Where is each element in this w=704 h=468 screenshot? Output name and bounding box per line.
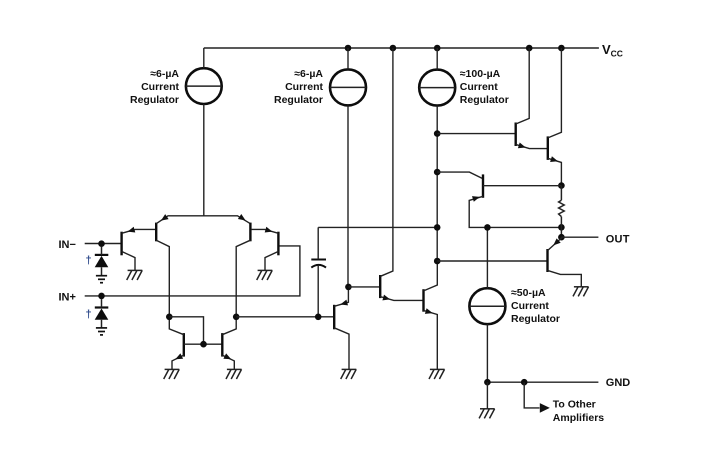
wire C1 top node to common column <box>318 226 437 228</box>
ground G3 (Q5 emitter) <box>164 369 180 379</box>
node C1 bottom junction <box>315 314 322 321</box>
ground G5 (Q7 collector) <box>341 369 357 379</box>
node Q6 collector junction <box>233 314 240 321</box>
diode D1 input clamp <box>95 247 109 276</box>
node I3 column junction to Q12 collector <box>434 169 441 176</box>
node IN+ diode junction <box>98 293 105 300</box>
wire Q10 collector to VCC <box>516 48 530 124</box>
svg-text:Regulator: Regulator <box>460 94 509 106</box>
svg-text:≈50-µA: ≈50-µA <box>511 287 546 299</box>
wire I4 bottom lead to GND rail <box>486 324 488 382</box>
transistor Q5 mirror NPN left <box>183 333 185 357</box>
wire mirror output to Q7 base <box>236 316 334 318</box>
svg-text:Amplifiers: Amplifiers <box>553 412 605 424</box>
svg-text:Current: Current <box>460 81 498 93</box>
svg-text:GND: GND <box>606 377 631 389</box>
node I3 column junction to Q10 base <box>434 130 441 137</box>
node OUT junction <box>558 234 565 241</box>
diode D2 input clamp <box>95 299 109 328</box>
node IN- diode junction <box>98 240 105 247</box>
wire I3 top lead <box>436 48 438 70</box>
wire Q2 collector down to mirror <box>156 240 169 317</box>
transistor Q4 outer right PNP <box>277 232 279 256</box>
wire Q11 emitter to resistor node <box>548 158 562 185</box>
resistor R1 <box>559 186 565 238</box>
wire VCC rail <box>204 47 599 49</box>
node Q5 collector junction <box>166 314 173 321</box>
wire Q13 base connection <box>437 260 547 262</box>
node mirror base junction <box>200 341 207 348</box>
node GND junction to other amplifiers <box>521 379 528 386</box>
node VCC junction at Q10 collector <box>526 45 533 52</box>
wire Q5 collector riser <box>169 317 184 335</box>
wire to other amplifiers <box>524 382 539 408</box>
wire I3 bottom lead down common node column <box>436 106 438 261</box>
ground E1 <box>96 276 107 283</box>
wire I4 ground stub <box>486 382 488 409</box>
arrow to other amplifiers <box>540 403 550 413</box>
node GND junction at I4 <box>484 379 491 386</box>
transistor Q9 NPN <box>422 289 424 312</box>
node resistor top junction <box>558 182 565 189</box>
transistor Q11 NPN output driver <box>547 136 549 160</box>
wire Q4 emitter to Q3 base <box>251 229 279 233</box>
svg-text:Current: Current <box>511 300 549 312</box>
wire Q11 collector to VCC <box>548 48 562 138</box>
wire Q1 collector to ground <box>122 251 135 270</box>
wire Q2 emitter to tail apex <box>156 216 250 224</box>
wire Q8 emitter to Q9 base <box>380 297 423 301</box>
wire Q5 emitter to ground <box>172 355 184 369</box>
svg-text:IN+: IN+ <box>59 291 76 303</box>
wire Q1 emitter to Q2 base <box>122 229 156 233</box>
svg-text:≈100-µA: ≈100-µA <box>460 68 501 80</box>
wire Q6 collector riser <box>222 317 236 335</box>
svg-text:Current: Current <box>285 81 323 93</box>
svg-text:Current: Current <box>141 81 179 93</box>
svg-text:†: † <box>86 255 92 267</box>
svg-text:IN−: IN− <box>59 239 76 251</box>
svg-text:≈6-µA: ≈6-µA <box>150 68 179 80</box>
current regulator I1 circle <box>186 68 222 104</box>
wire mirror base bar <box>184 343 223 345</box>
wire I4 top lead <box>486 227 488 288</box>
node VCC junction at Q8 collector <box>390 45 397 52</box>
transistor Q13 PNP output <box>546 249 548 272</box>
transistor Q6 mirror NPN right <box>221 333 223 357</box>
transistor Q2 inner left PNP <box>155 223 157 242</box>
svg-text:≈6-µA: ≈6-µA <box>294 68 323 80</box>
transistor Q8 NPN driver <box>379 275 381 298</box>
wire I1 bottom lead to input pair apex <box>203 104 205 216</box>
wire Q8 base connection <box>348 286 380 288</box>
svg-text:Regulator: Regulator <box>130 94 179 106</box>
wire Q8 collector to VCC <box>380 48 393 276</box>
wire IN- lead <box>85 243 122 245</box>
ground G4 (Q6 emitter) <box>226 369 242 379</box>
transistor Q12 PNP (left-facing) <box>482 174 484 197</box>
node I4 top junction <box>484 224 491 231</box>
current regulator I4 circle <box>469 288 505 324</box>
wire Q12 emitter to I4 node <box>469 196 561 227</box>
ground G9 (Q13 collector) <box>573 287 589 297</box>
svg-text:Regulator: Regulator <box>511 313 560 325</box>
wire I2 top lead <box>347 48 349 69</box>
wire C1 top lead <box>317 227 319 259</box>
wire Q13 emitter to OUT node <box>548 237 562 250</box>
ground G1 (Q1 collector) <box>127 270 143 280</box>
capacitor C1 compensation <box>311 260 326 268</box>
wire Q6 emitter to ground <box>222 355 234 369</box>
wire Q4 collector to ground <box>265 251 278 270</box>
node resistor bottom junction <box>558 224 565 231</box>
current regulator I2 circle <box>330 69 366 105</box>
wire Q13 collector to ground <box>548 270 582 286</box>
wire C1 bottom lead <box>317 266 319 317</box>
wire Q10 base connection <box>437 133 516 135</box>
svg-text:To Other: To Other <box>553 398 596 410</box>
transistor Q3 inner right PNP <box>249 223 251 242</box>
svg-text:Regulator: Regulator <box>274 94 323 106</box>
ground E2 <box>96 328 107 335</box>
node Q7 emitter / I2 / Q8 base junction <box>345 284 352 291</box>
wire Q10 emitter to Q11 base <box>516 144 548 148</box>
ground G8 (I4 return) <box>479 409 495 419</box>
node VCC junction at Q11 collector <box>558 45 565 52</box>
ground G6 (Q9 emitter) <box>429 369 445 379</box>
wire I1 top lead <box>203 48 205 68</box>
wire Q3 collector down to mirror <box>236 240 250 317</box>
wire mirror diode connection <box>169 317 203 344</box>
node VCC junction at I3 <box>434 45 441 52</box>
wire OUT lead <box>561 236 598 238</box>
transistor Q10 NPN output driver <box>515 123 517 147</box>
svg-text:OUT: OUT <box>606 233 630 245</box>
svg-text:†: † <box>86 308 92 320</box>
wire Q9 collector to common node <box>424 261 438 291</box>
transistor Q1 outer left PNP <box>120 232 122 256</box>
wire Q7 collector to ground <box>334 328 349 370</box>
node VCC junction at I2 <box>345 45 352 52</box>
wire Q9 emitter to ground <box>424 310 438 369</box>
transistor Q7 PNP second stage <box>333 305 335 330</box>
wire IN+ lead <box>85 246 300 296</box>
node I3 column junction to C1 <box>434 224 441 231</box>
wire Q7 emitter to I2 node <box>334 287 348 306</box>
wire GND rail <box>487 381 598 383</box>
current regulator I3 circle <box>419 70 455 106</box>
node Q9 collector junction <box>434 258 441 265</box>
wire I2 bottom lead to Q7 emitter node <box>347 105 349 287</box>
ground G2 (Q4 collector) <box>257 270 273 280</box>
wire Q12 collector connection <box>437 172 483 179</box>
wire Q12 base to resistor top <box>483 185 561 187</box>
